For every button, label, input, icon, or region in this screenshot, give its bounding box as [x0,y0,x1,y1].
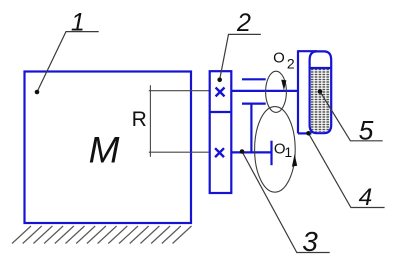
bracket (frame of slider) [298,50,317,133]
leader dot 4 [306,131,311,136]
leader line 5 [320,92,383,141]
svg-text:2: 2 [236,9,251,37]
upper shaft O2 [232,90,298,92]
svg-text:O: O [273,49,285,66]
leader line 1 [37,32,99,92]
leader dot 5 [318,89,323,94]
leader dot 1 [35,90,40,95]
bearing x lower [215,148,224,157]
svg-text:3: 3 [302,226,318,257]
gearbox 2 (block with bearings) [210,71,232,193]
rotation arrow O2 [281,80,286,91]
gearbox divider [211,111,232,113]
shaft end tick O1 [270,141,272,166]
coupling cap line [242,102,266,104]
coupling stem [250,104,252,153]
svg-text:2: 2 [287,56,295,72]
leader line 2 [220,34,261,79]
rotation ellipse O1 [255,107,296,193]
rotation arrow O1 [292,154,297,167]
leader dot 2 [217,78,222,83]
lower shaft O1 [232,151,272,153]
leader line 4 [309,133,385,207]
svg-text:M: M [89,130,120,171]
cylinder 5 (capsule with grid fill) [311,69,330,133]
coupling line upper [242,78,266,80]
motor housing 1 (rectangle M) [25,72,192,224]
svg-text:1: 1 [284,144,292,160]
leader dot 3 [240,149,245,154]
svg-text:5: 5 [359,116,374,146]
leader line 3 [242,152,330,253]
svg-text:4: 4 [359,184,373,211]
svg-text:1: 1 [71,9,85,37]
capsule junction line [310,67,332,69]
dimension R extension lines [149,85,209,157]
bearing x upper [216,88,225,97]
ground hatching [12,226,192,244]
rotation ellipse O2 [266,71,287,112]
svg-text:R: R [132,108,147,131]
